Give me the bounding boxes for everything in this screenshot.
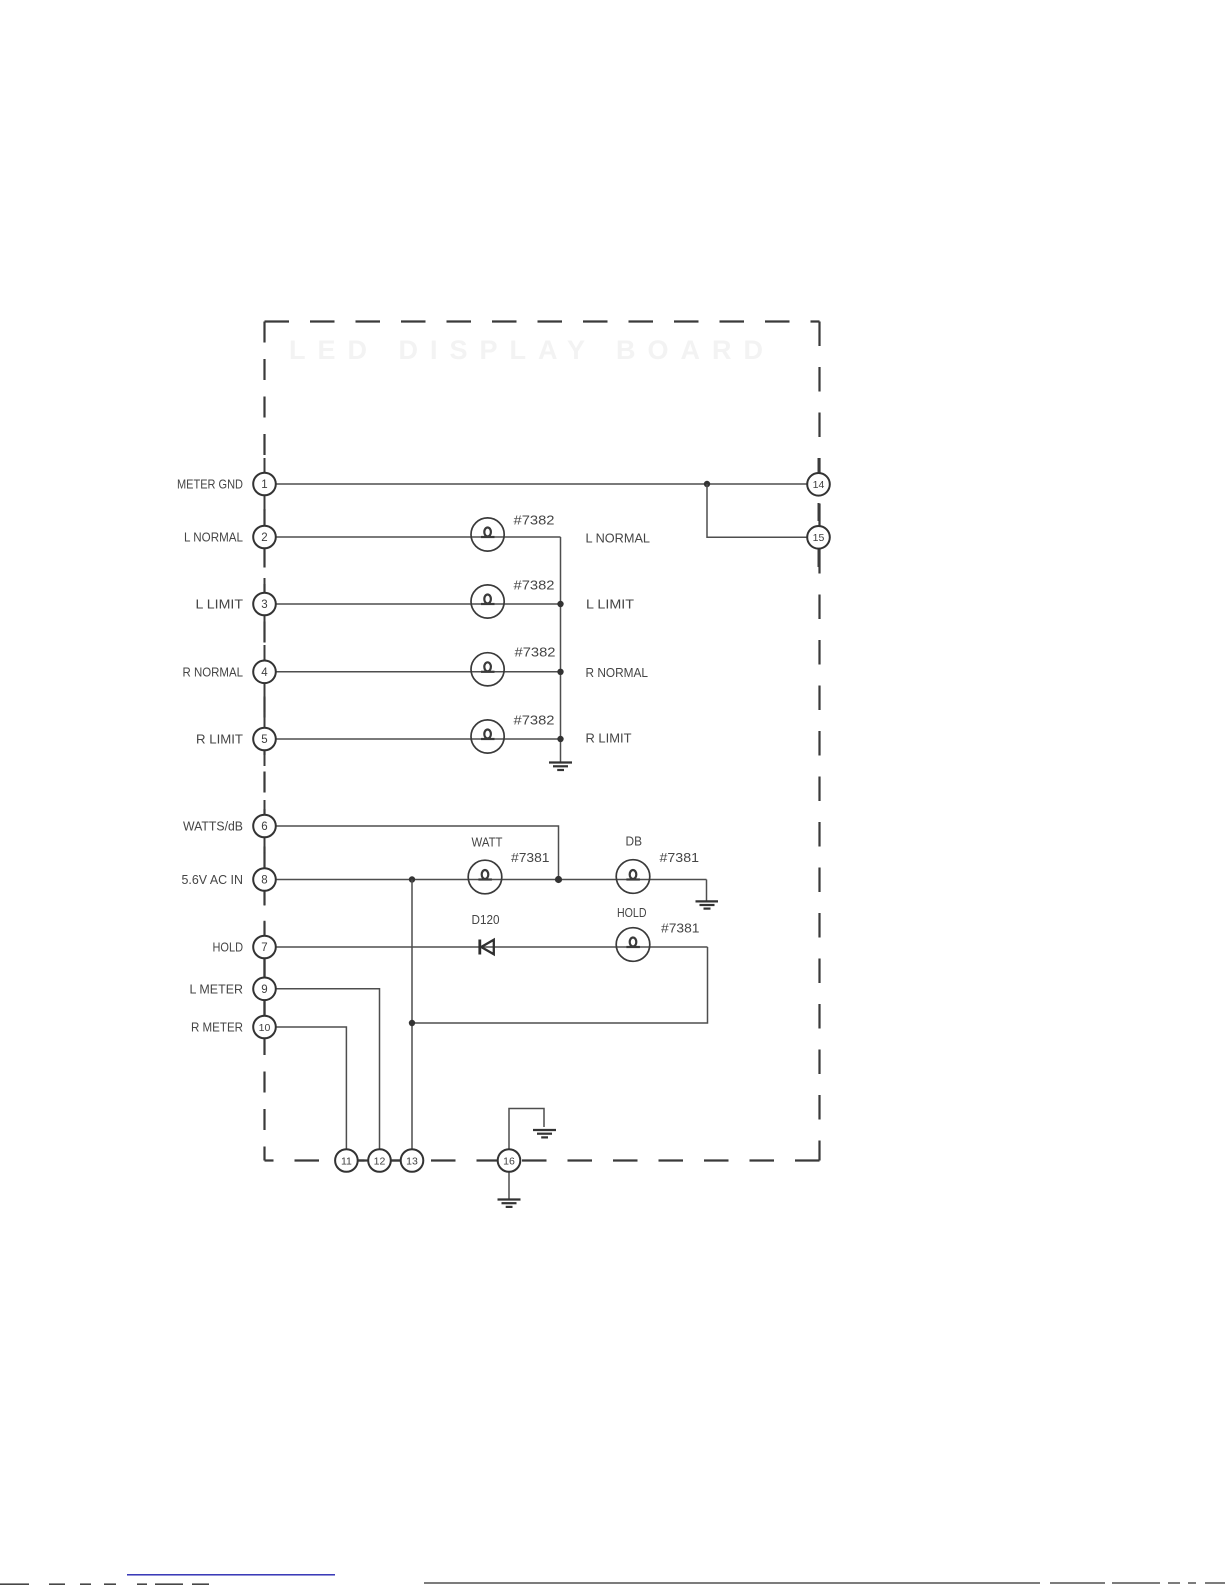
wire: L LIMIT row (pin 3 to bus)	[276, 603, 561, 605]
terminal lead stubs on left border	[264, 458, 266, 936]
lamp DS6 #7381 (DB)	[616, 860, 650, 894]
wire: pin 16 up to earth	[509, 1109, 544, 1150]
wire: pin 16 down to earth	[508, 1172, 510, 1199]
svg-text:5.6V AC IN: 5.6V AC IN	[182, 873, 244, 887]
svg-text:DB: DB	[626, 835, 643, 849]
wire: drop from METER GND junction to pin 15	[707, 484, 808, 537]
svg-text:L METER: L METER	[190, 982, 244, 996]
svg-text:L LIMIT: L LIMIT	[196, 598, 244, 612]
svg-text:15: 15	[813, 532, 825, 544]
wire: R METER from pin 10 to pin 11	[276, 1027, 346, 1149]
terminal pin 3	[253, 593, 276, 616]
junction R NORMAL / bus	[557, 669, 563, 675]
svg-text:WATT: WATT	[472, 836, 503, 850]
solid link pins 11-12-13	[335, 1159, 424, 1161]
terminal pin 13	[401, 1149, 424, 1172]
terminal pin 4	[253, 661, 276, 684]
wire: DB lamp to earth drop	[706, 880, 708, 902]
svg-text:11: 11	[341, 1155, 352, 1167]
svg-text:14: 14	[813, 479, 825, 491]
svg-text:2: 2	[261, 532, 267, 544]
svg-text:9: 9	[261, 984, 267, 996]
svg-text:1: 1	[261, 479, 267, 491]
svg-text:12: 12	[374, 1155, 386, 1167]
svg-text:10: 10	[259, 1022, 271, 1034]
svg-text:#7382: #7382	[515, 646, 556, 660]
wire: METER GND net from pin 1 to pin 14	[276, 483, 808, 485]
lamp DS4 #7382 (R LIMIT)	[471, 720, 504, 753]
svg-text:HOLD: HOLD	[617, 906, 647, 920]
junction 5.6V line / WATTS drop	[555, 876, 562, 883]
svg-text:R LIMIT: R LIMIT	[586, 732, 632, 746]
svg-text:R NORMAL: R NORMAL	[183, 665, 244, 679]
terminal pin 9	[253, 978, 276, 1001]
terminal pin 2	[253, 526, 276, 549]
svg-text:R METER: R METER	[191, 1021, 243, 1035]
lamp DS7 #7381 (HOLD)	[616, 928, 650, 962]
terminal pin 5	[253, 728, 276, 751]
wire: L METER from pin 9 to pin 12	[276, 989, 380, 1150]
svg-text:#7382: #7382	[514, 514, 555, 528]
ground: DB lamp earth	[696, 901, 719, 908]
svg-text:13: 13	[406, 1155, 418, 1167]
svg-text:WATTS/dB: WATTS/dB	[183, 820, 243, 834]
terminal pin 7	[253, 936, 276, 959]
svg-text:#7382: #7382	[514, 579, 555, 593]
svg-text:L NORMAL: L NORMAL	[184, 531, 243, 545]
svg-text:3: 3	[261, 599, 267, 611]
ground: lamp bus earth	[549, 763, 572, 771]
svg-text:7: 7	[261, 942, 267, 954]
diode D120	[480, 940, 494, 955]
svg-text:L NORMAL: L NORMAL	[586, 532, 651, 546]
svg-text:4: 4	[261, 667, 268, 679]
svg-text:D120: D120	[472, 913, 500, 927]
svg-text:#7382: #7382	[514, 714, 555, 728]
svg-text:16: 16	[503, 1155, 515, 1167]
ground: pin 16 upper earth	[533, 1130, 556, 1137]
svg-text:8: 8	[261, 875, 267, 887]
terminal pin 10	[253, 1016, 276, 1039]
dashed border: bottom edge	[265, 1159, 820, 1161]
terminal pin 8	[253, 868, 276, 891]
footer blue rule	[127, 1574, 335, 1575]
dashed border: right edge	[818, 322, 820, 1161]
svg-text:5: 5	[261, 734, 267, 746]
terminal pin 6	[253, 815, 276, 838]
ground: pin 16 lower earth	[498, 1200, 521, 1207]
svg-text:R LIMIT: R LIMIT	[196, 733, 243, 747]
junction HOLD return / pin13 drop	[409, 1020, 415, 1026]
solid link pins 7-9-10	[263, 947, 265, 1027]
wire: R NORMAL row (pin 4 to bus)	[276, 671, 561, 673]
dashed border: left edge	[263, 322, 265, 1161]
lamp DS5 #7381 (WATT)	[468, 860, 502, 894]
wire: HOLD row from pin 7 through diode and lamp	[276, 946, 708, 948]
terminal pin 15	[807, 526, 830, 549]
lamp DS2 #7382 (L LIMIT)	[471, 585, 504, 618]
wire: HOLD lamp return to pin 13 drop	[412, 947, 708, 1023]
footer cut-off rule (right)	[424, 1582, 1225, 1583]
svg-text:L LIMIT: L LIMIT	[586, 598, 634, 612]
terminal pin 11	[335, 1149, 358, 1172]
terminal pin 12	[368, 1149, 391, 1172]
wire: vertical drop from 5.6V junction to pin 13	[411, 880, 413, 1150]
terminal lead stubs pins 14 and 15	[818, 458, 820, 567]
dashed border: top edge	[265, 320, 820, 322]
wire: R LIMIT row (pin 5 to bus)	[276, 738, 561, 740]
wire: L NORMAL row (pin 2 to lamp to bus)	[276, 536, 561, 538]
junction 5.6V line / pin13 drop	[409, 876, 415, 882]
wire: 5.6V AC IN row from pin 8 to DB ground drop	[276, 879, 707, 881]
terminal pin 14	[807, 473, 830, 496]
terminal pin 16	[498, 1149, 521, 1172]
terminal pin 1	[253, 473, 276, 496]
svg-text:#7381: #7381	[660, 851, 700, 865]
svg-text:LED DISPLAY BOARD: LED DISPLAY BOARD	[289, 335, 775, 365]
lamp DS1 #7382 (L NORMAL)	[471, 518, 504, 551]
wire: WATTS/dB from pin 6 to junction on 5.6V line	[276, 826, 559, 880]
wire: lamp bus vertical to ground	[560, 537, 562, 762]
footer cut-off text fragments (left)	[0, 1583, 209, 1585]
svg-text:#7381: #7381	[511, 851, 550, 865]
junction on METER GND net	[704, 481, 710, 487]
junction L LIMIT / bus	[557, 601, 563, 607]
svg-text:6: 6	[261, 821, 267, 833]
svg-text:HOLD: HOLD	[213, 941, 244, 955]
svg-text:#7381: #7381	[661, 922, 700, 936]
svg-text:METER GND: METER GND	[177, 478, 243, 492]
junction R LIMIT / bus	[557, 736, 563, 742]
svg-text:R NORMAL: R NORMAL	[586, 666, 649, 680]
lamp DS3 #7382 (R NORMAL)	[471, 653, 504, 686]
